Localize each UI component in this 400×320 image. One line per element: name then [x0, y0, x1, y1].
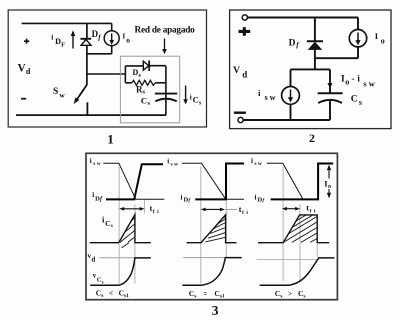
- wire Io bottom vertical fig2: [357, 47, 359, 58]
- panel 3 trace isw (thin): [267, 163, 318, 199]
- panel 2 trace vCs: [182, 258, 241, 286]
- panel 1 hatch artifact below baseline: [122, 243, 129, 248]
- wire snubber loop left: [124, 66, 126, 83]
- label Cs fig2: [351, 95, 362, 107]
- label iCs fig1: [190, 93, 202, 106]
- panel 3 label tfi: [306, 204, 316, 215]
- panel 1 label vCs: [93, 272, 104, 286]
- wire Io branch vertical top: [111, 23, 113, 30]
- panel 2 trace iCs with triangle: [187, 215, 237, 243]
- panel 2 caption Cs = Cs1: [189, 289, 225, 299]
- panel 1 guide line B: [134, 205, 136, 284]
- terminal bottom fig2: [238, 117, 243, 122]
- wire Cs branch vertical with arrow Io-isw: [327, 69, 332, 93]
- wire snubber top branch: [125, 65, 143, 67]
- label iDF with arrow: [51, 30, 75, 48]
- wire Rs to right: [155, 82, 166, 84]
- caption 2: [309, 131, 315, 145]
- panel 1 label iDf: [92, 191, 103, 202]
- wire Io branch vertical bottom: [111, 46, 113, 54]
- svg-text:Red de apagado: Red de apagado: [135, 26, 196, 36]
- label Io fig2: [375, 31, 385, 46]
- wire Ds to right: [149, 65, 166, 67]
- panel 1 trace iDf (thick): [106, 164, 163, 199]
- panel 2 tfi arrow: [201, 208, 237, 212]
- label Vd fig1: [18, 62, 31, 76]
- label Io fig1: [123, 32, 131, 44]
- caption 3: [212, 303, 219, 318]
- panel 1 label iCs: [102, 214, 113, 229]
- panel 2 label isw: [167, 158, 178, 168]
- diode Ds: [143, 60, 149, 71]
- wire main vertical: [86, 45, 88, 85]
- wire isw bottom vertical: [290, 104, 292, 120]
- current source Io fig2: [349, 30, 366, 47]
- svg-text:2: 2: [309, 131, 315, 145]
- terminal top fig2: [242, 15, 247, 20]
- label Io - isw: [341, 74, 376, 89]
- panel 1 guide line A: [118, 167, 120, 284]
- label Vd fig2: [233, 65, 247, 79]
- panel 3 trace vCs: [260, 258, 335, 285]
- panel 1 trace vCs: [90, 258, 151, 285]
- switch Sw: [74, 85, 88, 115]
- wire top rail fig2: [248, 17, 358, 19]
- caption 1: [107, 131, 114, 146]
- panel 1 hatching: [120, 218, 135, 242]
- panel 3 guide line B: [299, 204, 301, 281]
- wire top rail fig1: [22, 22, 112, 24]
- wire bottom rail fig1: [16, 114, 166, 116]
- wire Df branch vertical fig2: [314, 17, 316, 41]
- wire middle junction horizontal: [291, 68, 331, 70]
- wire Cs bottom vertical fig2: [329, 101, 331, 120]
- node + label: [24, 39, 29, 44]
- panel 2 label tfi: [239, 205, 249, 216]
- panel 2 guide line B: [225, 201, 227, 259]
- label minus fig2: [234, 111, 246, 113]
- capacitor Cs fig2: [318, 93, 343, 103]
- panel 3 trace iDf (thick): [271, 164, 334, 200]
- wire Df branch upper: [86, 23, 88, 38]
- label plus fig2: [239, 27, 251, 36]
- panel 1 vd reference line: [99, 257, 134, 259]
- panel 1 guide line C: [144, 199, 146, 214]
- panel 3 tfi arrow: [282, 207, 300, 211]
- wire isw branch vertical: [290, 69, 292, 86]
- label Red de apagado: [135, 26, 196, 36]
- panel 3 guide line A: [282, 167, 284, 282]
- panel 1 caption Cs < Cs1: [96, 288, 129, 298]
- panel 3 label isw: [251, 157, 262, 167]
- label Sw: [53, 87, 65, 99]
- diode Df fig1: [80, 39, 91, 46]
- panel 3 trace iCs pentagon: [258, 215, 329, 243]
- capacitor Cs fig1: [155, 94, 177, 102]
- label Rs: [136, 84, 146, 95]
- diode Df fig2: [307, 41, 323, 50]
- svg-text:Cs=Cs1: Cs=Cs1: [189, 289, 225, 299]
- panel 3 label iDf: [255, 194, 266, 204]
- label Df fig2: [289, 38, 300, 49]
- label isw fig2: [258, 88, 276, 102]
- wire snubber right vertical: [165, 66, 167, 115]
- frame figure 3: [86, 153, 337, 299]
- panel 3 hatching: [284, 215, 317, 243]
- panel 2 guide line A: [200, 167, 202, 284]
- wire Io branch vertical fig2: [357, 17, 359, 29]
- wire bottom rail fig2: [244, 119, 331, 121]
- svg-text:3: 3: [212, 303, 219, 318]
- panel 2 trace isw (thin): [182, 163, 244, 199]
- panel 3 caption Cs > Cs: [275, 289, 306, 299]
- panel 1 trace iCs with triangle: [90, 215, 151, 243]
- wire branch to snubber: [87, 73, 125, 75]
- panel 2 trace iDf (thick): [195, 164, 244, 200]
- arrow pointing to snubber box: [162, 39, 167, 55]
- panel 2 vd reference line: [183, 257, 225, 259]
- panel 3 arrow Io measure: [323, 165, 334, 199]
- panel 3 vd reference line: [257, 258, 317, 260]
- snubber box (gray): [120, 56, 179, 123]
- label Cs fig1: [141, 95, 151, 107]
- resistor Rs zigzag: [132, 80, 156, 85]
- panel 1 label tfi: [150, 204, 160, 215]
- panel 2 label iDf: [181, 194, 192, 204]
- wire Df lower vertical fig2: [314, 50, 316, 70]
- label Df fig1: [92, 29, 102, 41]
- arrow iCs fig1: [183, 86, 188, 105]
- frame figure 1: [8, 10, 206, 127]
- panel 1 label isw: [90, 157, 101, 167]
- svg-text:1: 1: [107, 131, 114, 146]
- panel 3 guide line C: [316, 243, 318, 257]
- label Ds: [133, 68, 142, 79]
- panel 1 tfi arrow: [119, 207, 144, 211]
- wire snubber bottom branch left: [125, 82, 131, 84]
- wire junction Df-Io: [87, 53, 112, 55]
- label minus fig1: [21, 98, 26, 100]
- svg-text:Cs>Cs: Cs>Cs: [275, 289, 306, 299]
- current source Io fig1: [104, 31, 119, 46]
- panel 1 trace isw (thin): [103, 163, 164, 199]
- frame figure 2: [230, 10, 391, 129]
- wire Io-Df junction horizontal: [315, 57, 358, 59]
- panel 1 label Vd: [88, 252, 96, 264]
- panel 2 hatching: [205, 217, 225, 242]
- current source isw: [282, 87, 300, 105]
